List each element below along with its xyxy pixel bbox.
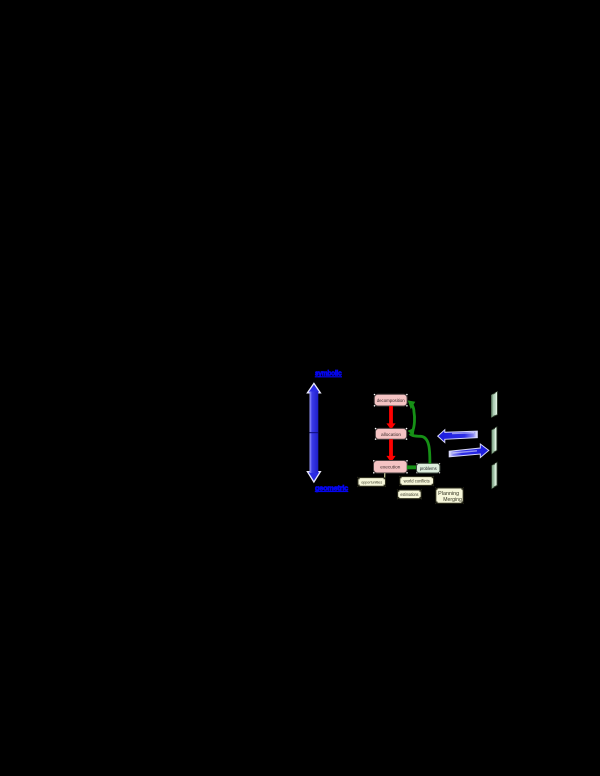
plan sheet top xyxy=(492,392,498,418)
label symbolic level (top blue) xyxy=(315,369,342,378)
box opportunities xyxy=(357,477,386,487)
green feedback curve to decomposition xyxy=(408,400,416,431)
svg-text:estimations: estimations xyxy=(400,492,418,497)
blue arrow diagram to plans (points right) xyxy=(449,444,489,458)
box world conflicts xyxy=(399,476,434,486)
svg-text:problems: problems xyxy=(420,466,437,471)
red arrow allocation to execution xyxy=(386,439,395,462)
svg-text:Merging: Merging xyxy=(443,497,462,503)
box execution xyxy=(373,460,408,474)
box decomposition xyxy=(374,394,408,407)
green link execution to problems xyxy=(407,465,417,469)
red arrow decomposition to allocation xyxy=(386,406,395,430)
connector execution to opportunities xyxy=(384,473,386,478)
box planning merging xyxy=(435,487,464,504)
label geometric level (bottom blue) xyxy=(315,483,349,492)
svg-text:opportunities: opportunities xyxy=(361,480,382,485)
plan sheet middle xyxy=(492,427,497,454)
green feedback curve problems to allocation xyxy=(408,428,430,464)
box allocation xyxy=(375,428,408,440)
svg-text:world conflicts: world conflicts xyxy=(404,479,430,484)
axis double arrow (blue vertical) xyxy=(307,383,320,482)
box estimations xyxy=(397,489,422,499)
plan sheet bottom xyxy=(492,462,497,488)
svg-text:Planning: Planning xyxy=(438,491,459,497)
svg-text:execution: execution xyxy=(380,465,400,470)
svg-text:decomposition: decomposition xyxy=(377,398,405,403)
blue arrow plans to diagram (points left) xyxy=(438,430,478,443)
svg-text:allocation: allocation xyxy=(381,432,401,437)
box problems xyxy=(416,463,440,473)
